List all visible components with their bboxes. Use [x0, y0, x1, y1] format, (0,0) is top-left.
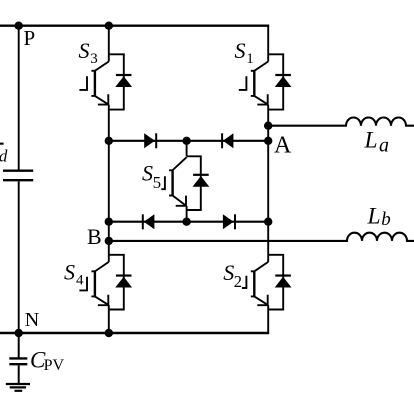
wire bottom DC rail (node N) — [0, 332, 269, 334]
junction dot P — [15, 22, 23, 30]
diode bottom-left (cathode left leg) — [143, 214, 155, 229]
svg-text:L: L — [367, 204, 381, 230]
junction dot N — [15, 329, 23, 337]
label S5 — [142, 161, 161, 193]
svg-text:N: N — [25, 309, 39, 331]
svg-text:S: S — [64, 259, 75, 284]
label S1 — [235, 38, 254, 67]
svg-text:S: S — [142, 161, 153, 186]
junction dot right leg / bottom diode row — [264, 218, 272, 226]
label Lb — [367, 204, 391, 230]
label S4 — [64, 259, 84, 288]
capacitor Cd plates — [3, 171, 33, 181]
inductor Lb (wire from node B) — [109, 233, 414, 241]
svg-text:S: S — [235, 38, 246, 63]
svg-text:1: 1 — [246, 51, 254, 67]
junction dot top of left leg — [105, 22, 113, 30]
label C_PV — [30, 348, 64, 374]
junction dot S5 top — [182, 137, 190, 145]
junction dot S5 bottom — [182, 218, 190, 226]
IGBT S4 with antiparallel diode — [79, 255, 132, 310]
IGBT S2 with antiparallel diode — [242, 255, 292, 310]
wire right leg segments — [267, 25, 269, 334]
diode bottom-right (cathode right leg) — [223, 214, 235, 229]
IGBT S5 with antiparallel diode (bidirectional branch) — [161, 141, 209, 222]
wire left leg segments — [108, 25, 110, 334]
svg-text:b: b — [381, 209, 391, 230]
inductor La — [268, 118, 414, 126]
junction dot left leg / bottom diode row — [105, 218, 113, 226]
svg-text:PV: PV — [44, 357, 65, 374]
svg-text:S: S — [223, 260, 234, 285]
svg-text:A: A — [274, 133, 292, 159]
junction dot node B — [105, 237, 113, 245]
capacitor C_PV plates — [9, 358, 27, 364]
svg-text:P: P — [24, 26, 36, 50]
svg-text:5: 5 — [153, 173, 162, 192]
wire left DC bus vertical — [18, 26, 20, 333]
svg-text:S: S — [79, 38, 90, 63]
label Ud (cut off at left edge) — [0, 143, 8, 166]
junction dot right leg / La feed — [264, 122, 272, 130]
wire top DC rail (node P) — [0, 25, 269, 27]
label S2 — [223, 260, 242, 291]
IGBT S3 with antiparallel diode — [79, 54, 132, 109]
label La — [364, 127, 390, 156]
junction dot left leg / node A row — [105, 137, 113, 145]
junction dot node A — [264, 137, 272, 145]
diode top-right (anode node A, cathode centre) — [222, 133, 233, 148]
IGBT S1 with antiparallel diode — [239, 54, 292, 109]
diode top-left (anode left leg, cathode centre) — [144, 133, 156, 148]
svg-text:3: 3 — [90, 51, 98, 67]
svg-text:4: 4 — [76, 273, 84, 289]
label S3 — [79, 38, 98, 67]
svg-text:L: L — [364, 127, 378, 153]
wire node A row — [109, 140, 268, 142]
junction dot bottom of left leg — [105, 329, 113, 337]
ground symbol below C_PV — [6, 384, 30, 391]
svg-text:d: d — [0, 147, 8, 166]
wire bottom diode row — [109, 221, 268, 223]
svg-text:2: 2 — [234, 272, 242, 291]
svg-text:a: a — [379, 135, 389, 157]
svg-text:B: B — [87, 224, 102, 249]
wire C_PV stem — [18, 333, 20, 383]
